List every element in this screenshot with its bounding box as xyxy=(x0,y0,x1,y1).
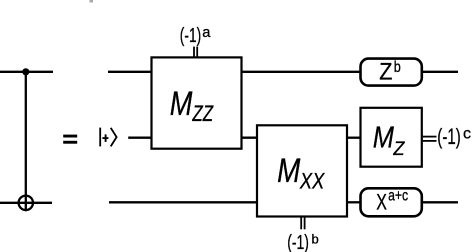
svg-text:a+c: a+c xyxy=(388,186,408,204)
wire: CNOT vertical connector xyxy=(25,72,27,211)
wire: qubit 2 input segment xyxy=(109,201,258,203)
equals sign xyxy=(63,135,77,144)
wire: ancilla input segment xyxy=(128,137,152,139)
svg-text:c: c xyxy=(463,125,471,142)
wire: left circuit bottom qubit xyxy=(0,202,52,204)
svg-text:M: M xyxy=(170,84,193,123)
stray crop artifact xyxy=(90,0,94,3)
svg-text:b: b xyxy=(312,231,319,246)
wire: qubit 2 output segment xyxy=(422,201,458,203)
svg-text:ZZ: ZZ xyxy=(192,102,214,127)
svg-text:Z: Z xyxy=(392,137,405,159)
gate box Zb (rounded) xyxy=(361,59,422,86)
label MXX xyxy=(277,151,326,194)
wire: qubit 1 output segment xyxy=(422,71,458,73)
svg-text:a: a xyxy=(202,25,211,41)
wire: qubit 2 between MXX and Xa+c xyxy=(347,201,361,203)
label Zb xyxy=(379,57,401,84)
node: ancilla ket |+> label xyxy=(100,128,116,147)
classical double wire right of MZ xyxy=(423,137,437,141)
svg-text:M: M xyxy=(277,151,300,189)
gate box Xa+c (rounded) xyxy=(361,188,422,216)
label Xa+c xyxy=(376,186,408,215)
svg-text:M: M xyxy=(373,120,395,155)
CNOT control dot xyxy=(22,68,29,75)
wire: qubit 1 input segment xyxy=(108,71,152,73)
svg-text:XX: XX xyxy=(299,170,326,194)
wire: ancilla between MXX and MZ xyxy=(347,137,361,139)
svg-text:(-1): (-1) xyxy=(287,231,309,252)
wire: left circuit top qubit xyxy=(0,71,53,73)
svg-text:(-1): (-1) xyxy=(180,23,201,46)
label MZZ xyxy=(170,84,214,126)
svg-text:(-1): (-1) xyxy=(437,125,460,150)
wire: ancilla between MZZ and MXX xyxy=(242,137,259,139)
measurement box MZZ xyxy=(152,57,242,148)
svg-text:X: X xyxy=(376,190,387,215)
CNOT target (XOR circle) xyxy=(19,196,33,210)
label (-1)^b outcome xyxy=(287,231,319,252)
svg-text:Z: Z xyxy=(379,57,392,84)
measurement box MZ xyxy=(361,108,422,167)
label (-1)^c outcome xyxy=(437,125,471,150)
measurement box MXX xyxy=(257,125,347,216)
svg-text:b: b xyxy=(394,59,401,77)
label (-1)^a outcome xyxy=(180,23,211,46)
classical double wire above MZZ xyxy=(194,47,197,57)
wire: qubit 1 between MZZ and Zb xyxy=(242,71,362,73)
classical double wire below MXX xyxy=(301,217,304,230)
label MZ xyxy=(373,120,406,159)
